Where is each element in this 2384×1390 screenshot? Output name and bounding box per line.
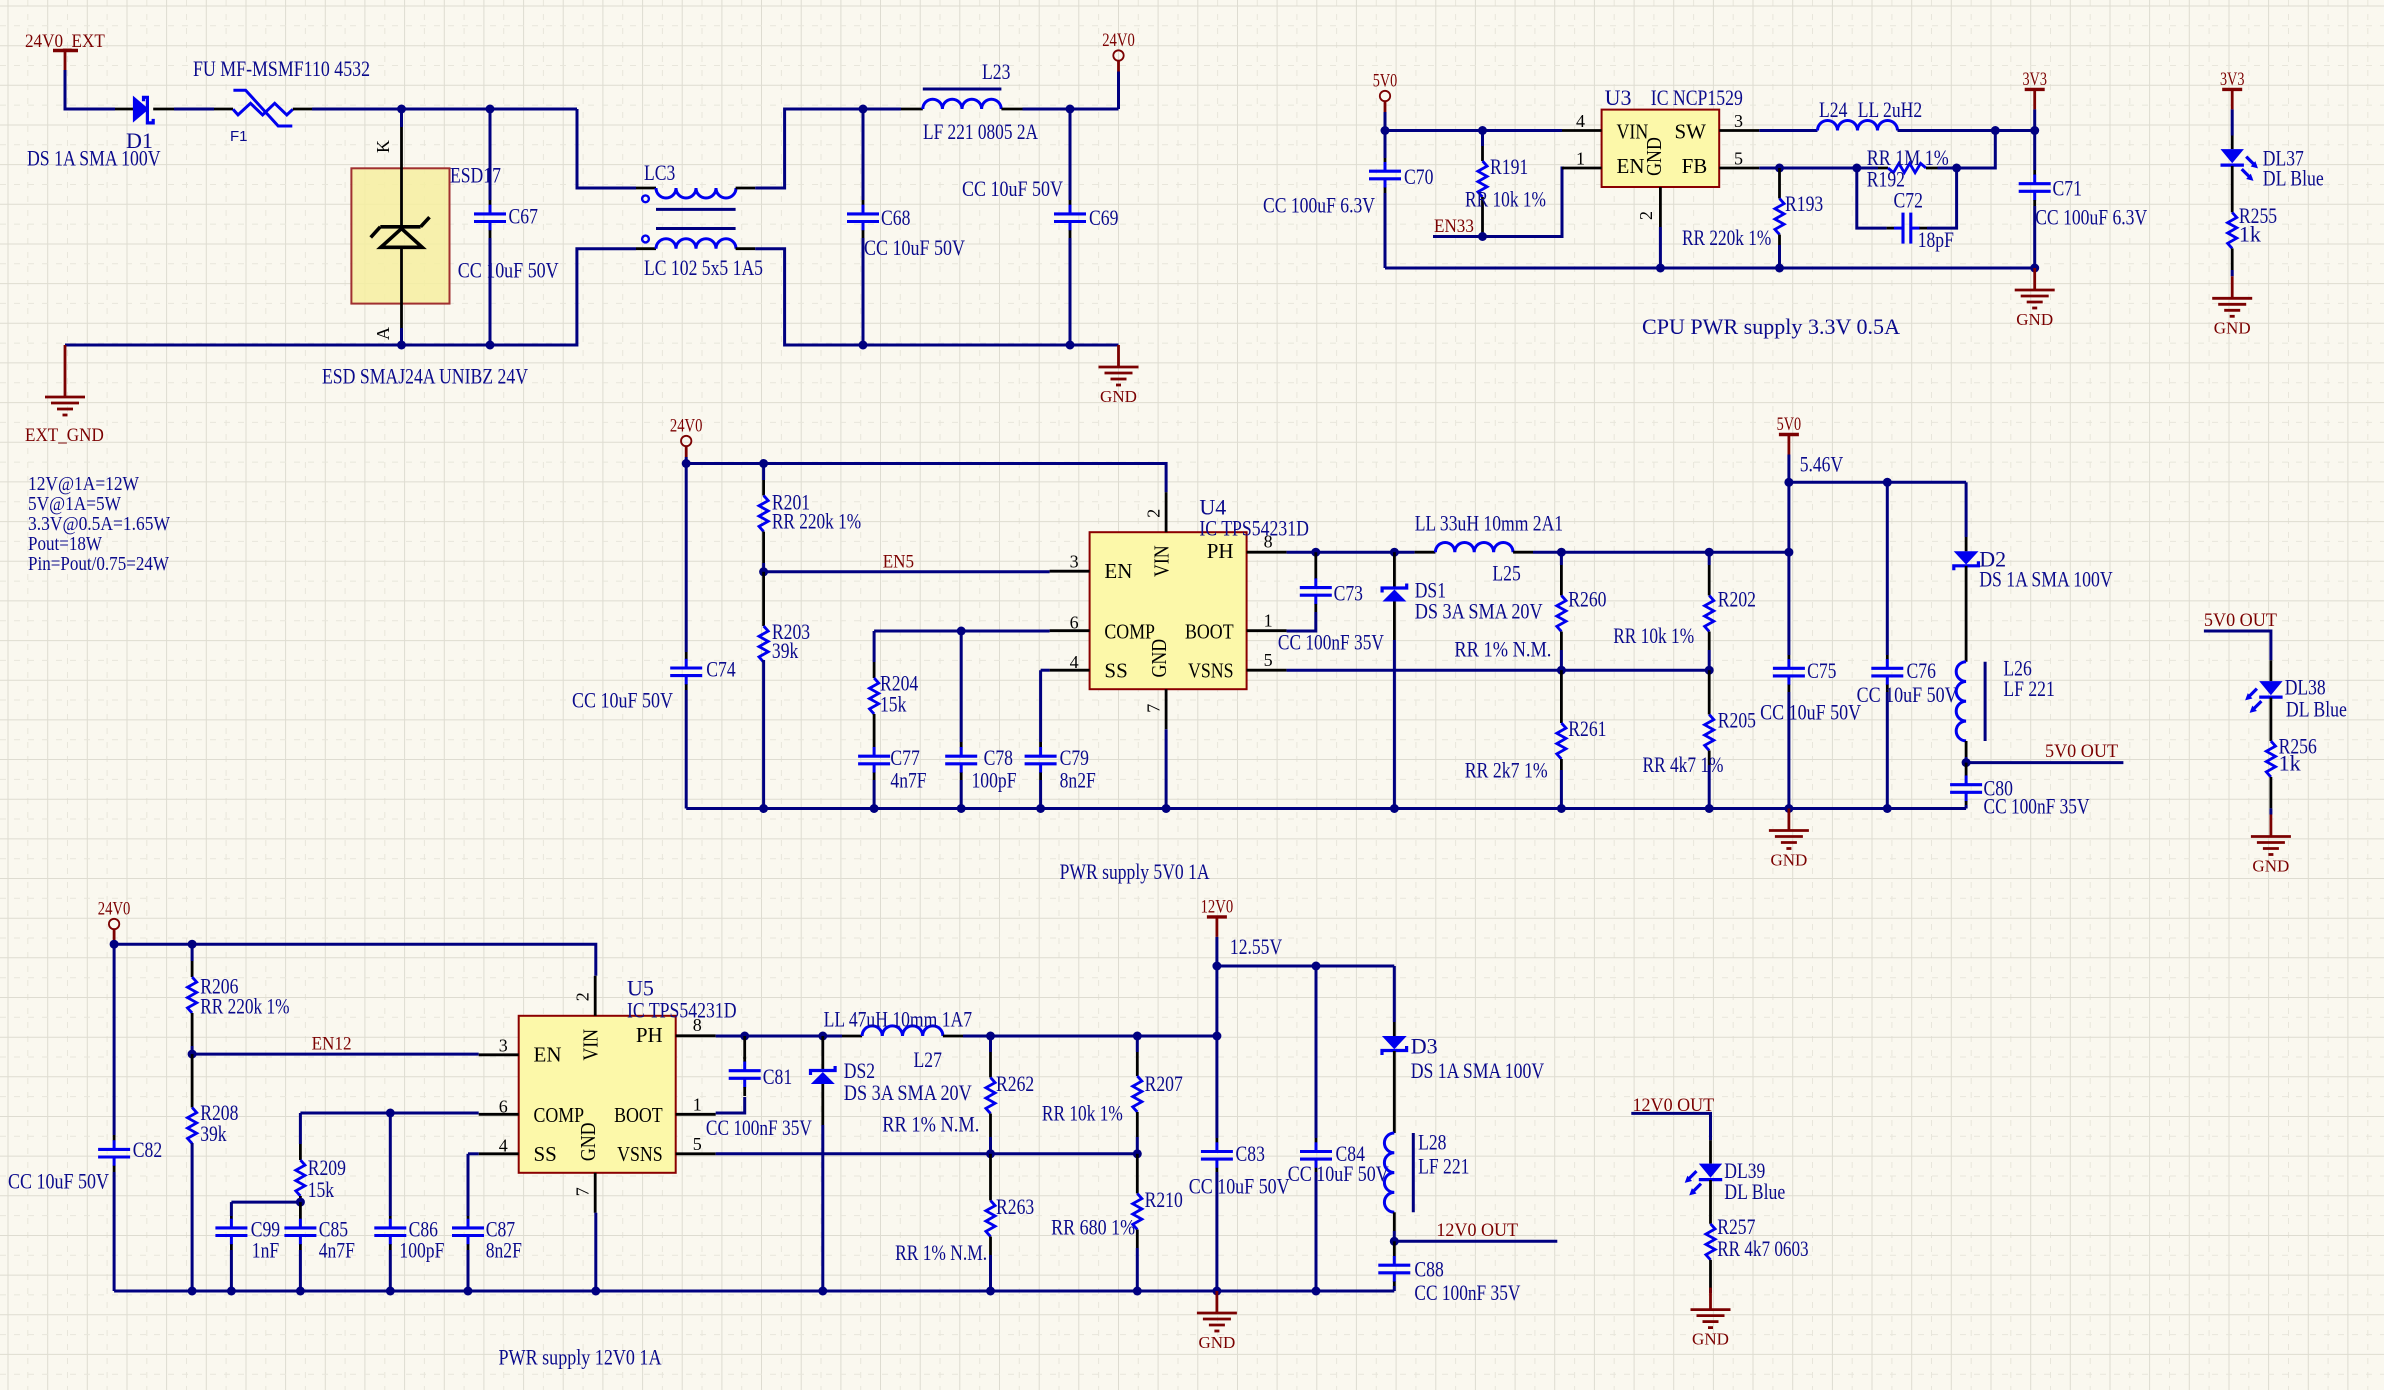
- svg-text:L25: L25: [1492, 561, 1520, 586]
- svg-text:2: 2: [1144, 509, 1164, 518]
- U5 pin 6 COMP: [479, 1113, 519, 1116]
- svg-text:RR 4k7 1%: RR 4k7 1%: [1643, 752, 1724, 777]
- junction DS1 top: [1390, 548, 1399, 557]
- svg-text:Pout=18W: Pout=18W: [28, 533, 102, 555]
- ground GND mid block: [1788, 809, 1791, 831]
- svg-text:DS 1A SMA 100V: DS 1A SMA 100V: [1979, 567, 2113, 592]
- svg-text:CC 10uF 50V: CC 10uF 50V: [8, 1169, 109, 1194]
- svg-text:RR 1% N.M.: RR 1% N.M.: [895, 1240, 987, 1265]
- op IC U4 TPS54231D body: [1090, 532, 1247, 689]
- capacitor C87 8n2F: [467, 1154, 470, 1216]
- resistor R191 RR 10k 1%: [1481, 131, 1484, 147]
- capacitor C86 100pF: [389, 1113, 392, 1216]
- svg-text:L24: L24: [1819, 97, 1847, 122]
- svg-text:BOOT: BOOT: [1185, 620, 1234, 644]
- svg-text:CC 10uF 50V: CC 10uF 50V: [1288, 1161, 1389, 1186]
- wire SS row U5: [468, 1152, 479, 1155]
- svg-text:RR 1% N.M.: RR 1% N.M.: [882, 1112, 979, 1137]
- ground GND DL37: [2231, 276, 2234, 298]
- svg-text:LF 221: LF 221: [1418, 1154, 1469, 1179]
- junction R209/C85: [296, 1198, 305, 1207]
- svg-text:DS 3A SMA 20V: DS 3A SMA 20V: [844, 1080, 972, 1105]
- top rail bottom block: [114, 944, 596, 976]
- LED DL38 DL Blue: [2269, 660, 2272, 681]
- inductor L27 LL 47uH 10mm 1A7: [842, 1035, 862, 1038]
- svg-text:C77: C77: [890, 745, 919, 770]
- capacitor C77 4n7F: [873, 714, 876, 748]
- diode D3 DS 1A SMA 100V: [1393, 966, 1396, 1022]
- wire D1 to F1: [174, 108, 214, 111]
- inductor L24 LL 2uH2: [1759, 129, 1817, 132]
- capacitor C84 CC 10uF 50V: [1315, 966, 1318, 1138]
- junction U4 GND bottom: [1162, 804, 1171, 813]
- svg-text:CC 100uF 6.3V: CC 100uF 6.3V: [2035, 205, 2147, 230]
- svg-text:3V3: 3V3: [2022, 69, 2047, 90]
- capacitor C83 CC 10uF 50V: [1215, 1036, 1218, 1138]
- resistor R204 15k: [873, 631, 876, 662]
- svg-text:C74: C74: [706, 656, 735, 681]
- svg-text:GND: GND: [1642, 137, 1666, 176]
- junction C77 bottom: [870, 804, 879, 813]
- svg-text:5: 5: [1734, 149, 1743, 169]
- top rail mid block: [686, 464, 1166, 493]
- svg-text:IC TPS54231D: IC TPS54231D: [1199, 516, 1309, 541]
- junction C70 top: [1381, 126, 1390, 135]
- svg-text:GND: GND: [1692, 1330, 1729, 1349]
- svg-text:CC 10uF 50V: CC 10uF 50V: [1760, 700, 1861, 725]
- svg-text:SS: SS: [1104, 659, 1127, 683]
- svg-text:4: 4: [1070, 652, 1079, 672]
- junction R202/R205: [1705, 666, 1714, 675]
- resistor R201 RR 220k 1%: [762, 464, 765, 481]
- svg-text:R202: R202: [1718, 587, 1756, 612]
- inductor L26 LF 221: [1956, 662, 1966, 741]
- svg-text:VIN: VIN: [1150, 545, 1174, 577]
- ESD yellow highlight box: [351, 168, 449, 303]
- svg-text:C72: C72: [1894, 188, 1923, 213]
- svg-text:EN12: EN12: [312, 1034, 352, 1055]
- ground GND DL38: [2269, 815, 2272, 837]
- svg-text:VSNS: VSNS: [1188, 659, 1234, 683]
- capacitor C82 CC 10uF 50V: [113, 944, 116, 1135]
- junction C82 top: [110, 940, 119, 949]
- wire F1 to node / top rail: [312, 108, 577, 111]
- svg-text:1: 1: [1576, 149, 1585, 169]
- svg-text:CC 10uF 50V: CC 10uF 50V: [1189, 1174, 1290, 1199]
- svg-text:8n2F: 8n2F: [1060, 768, 1096, 793]
- junction C68 top: [859, 105, 868, 114]
- svg-text:C70: C70: [1404, 164, 1433, 189]
- svg-text:18pF: 18pF: [1918, 227, 1954, 252]
- inductor L28 LF 221: [1384, 1133, 1394, 1212]
- junction R262 top: [986, 1032, 995, 1041]
- svg-text:F1: F1: [230, 128, 248, 145]
- common-mode choke LC3 LC 102 5x5 1A5: [636, 187, 656, 190]
- svg-text:15k: 15k: [880, 692, 906, 717]
- junction EN33/R191: [1478, 232, 1487, 241]
- U3 pin 1 EN: [1562, 167, 1602, 170]
- diode D2 DS 1A SMA 100V: [1965, 482, 1968, 537]
- svg-text:RR 2k7 1%: RR 2k7 1%: [1465, 758, 1548, 783]
- svg-text:7: 7: [1144, 704, 1164, 713]
- capacitor C99 1nF: [230, 1202, 233, 1216]
- ground GND block B: [2033, 268, 2036, 290]
- capacitor C69 CC 10uF 50V: [1069, 109, 1072, 200]
- svg-text:LC3: LC3: [644, 160, 675, 185]
- svg-text:SS: SS: [534, 1142, 557, 1166]
- capacitor C80 CC 100nF 35V: [1965, 763, 1968, 771]
- junction 12V rail left: [1212, 962, 1221, 971]
- svg-text:CPU PWR supply 3.3V 0.5A: CPU PWR supply 3.3V 0.5A: [1642, 314, 1900, 339]
- svg-text:5V0: 5V0: [1777, 414, 1802, 435]
- ground GND block A: [1117, 345, 1120, 367]
- svg-text:C78: C78: [984, 745, 1013, 770]
- svg-text:4: 4: [499, 1135, 508, 1155]
- svg-text:12V@1A=12W: 12V@1A=12W: [28, 473, 139, 495]
- resistor R256 1k: [2266, 741, 2275, 777]
- svg-text:DL Blue: DL Blue: [2286, 697, 2347, 722]
- capacitor C79 8n2F: [1039, 670, 1042, 742]
- svg-text:PWR supply 5V0 1A: PWR supply 5V0 1A: [1060, 859, 1210, 884]
- svg-text:1nF: 1nF: [252, 1238, 279, 1263]
- ferrite L23 LF 221 0805 2A: [901, 108, 923, 111]
- 5V output rail: [1789, 481, 1966, 484]
- junction R193 top: [1775, 164, 1784, 173]
- U4 pin 2 VIN: [1165, 492, 1168, 532]
- resistor R207 RR 10k 1%: [1136, 1036, 1139, 1052]
- svg-text:GND: GND: [1100, 387, 1137, 406]
- svg-text:C75: C75: [1807, 658, 1836, 683]
- svg-text:RR 1% N.M.: RR 1% N.M.: [1454, 637, 1551, 662]
- ground GND DL39: [1709, 1288, 1712, 1310]
- junction C99 bottom: [227, 1287, 236, 1296]
- wire EN5 row: [764, 570, 1050, 573]
- capacitor C73 CC 100nF 35V: [1314, 552, 1317, 574]
- wire FB row: [1759, 167, 1857, 170]
- svg-text:12.55V: 12.55V: [1230, 934, 1282, 959]
- svg-text:RR 220k 1%: RR 220k 1%: [772, 509, 861, 534]
- junction C74 top: [682, 459, 691, 468]
- wire 24V0_EXT to D1: [65, 70, 115, 109]
- svg-text:R210: R210: [1145, 1187, 1183, 1212]
- wire SS row U4: [1041, 669, 1050, 672]
- op IC U3 NCP1529 body: [1602, 110, 1720, 187]
- capacitor C70 CC 100uF 6.3V: [1384, 131, 1387, 159]
- svg-text:Pin=Pout/0.75=24W: Pin=Pout/0.75=24W: [28, 553, 169, 575]
- svg-text:DS 1A SMA 100V: DS 1A SMA 100V: [1411, 1058, 1545, 1083]
- resistor R209 15k: [299, 1113, 302, 1144]
- svg-text:GND: GND: [2214, 318, 2251, 337]
- junction C83/GND bottom: [1212, 1287, 1221, 1296]
- U5 pin 2 VIN: [594, 976, 597, 1016]
- svg-text:C68: C68: [881, 205, 910, 230]
- resistor R263 RR 1% N.M.: [989, 1154, 992, 1201]
- svg-text:R260: R260: [1568, 587, 1606, 612]
- U3 pin 2 GND: [1659, 187, 1662, 227]
- TVS ESD17 SMAJ24A: [400, 109, 403, 127]
- svg-text:39k: 39k: [200, 1121, 226, 1146]
- resistor R203 39k: [762, 572, 765, 626]
- capacitor C88 CC 100nF 35V: [1393, 1241, 1396, 1251]
- junction C69 top: [1066, 105, 1075, 114]
- svg-text:R191: R191: [1490, 154, 1528, 179]
- U5 pin 5 VSNS: [676, 1152, 716, 1155]
- svg-text:VIN: VIN: [579, 1029, 603, 1061]
- junction R207/R210: [1133, 1149, 1142, 1158]
- U5 pin 4 SS: [479, 1152, 519, 1155]
- svg-text:L28: L28: [1418, 1130, 1446, 1155]
- svg-text:R207: R207: [1145, 1071, 1183, 1096]
- svg-text:4: 4: [1576, 111, 1585, 131]
- svg-text:RR 10k 1%: RR 10k 1%: [1465, 187, 1546, 212]
- svg-text:24V0: 24V0: [1102, 30, 1135, 51]
- wire 5V0_OUT stub: [1966, 761, 2123, 764]
- svg-text:IC NCP1529: IC NCP1529: [1651, 85, 1743, 110]
- svg-text:R205: R205: [1718, 708, 1756, 733]
- svg-text:3: 3: [1070, 552, 1079, 572]
- junction C86 bottom: [386, 1287, 395, 1296]
- svg-text:ESD17: ESD17: [450, 163, 501, 188]
- svg-text:GND: GND: [2016, 310, 2053, 329]
- svg-text:8n2F: 8n2F: [486, 1238, 522, 1263]
- svg-text:PH: PH: [1207, 539, 1234, 563]
- top rail 5V block: [1385, 129, 1562, 132]
- svg-text:C71: C71: [2053, 176, 2082, 201]
- svg-text:R193: R193: [1785, 191, 1823, 216]
- U4 pin 8 PH: [1247, 551, 1287, 554]
- wire EN33 to U3 EN: [1433, 168, 1564, 237]
- svg-text:5: 5: [693, 1134, 702, 1154]
- wire 5V0_OUT to DL38: [2204, 631, 2271, 660]
- svg-text:RR 220k 1%: RR 220k 1%: [1682, 225, 1771, 250]
- junction C67 top: [486, 105, 495, 114]
- U4 pin 5 VSNS: [1247, 669, 1287, 672]
- junction ESD bottom: [397, 341, 406, 350]
- junction C81 top: [740, 1032, 749, 1041]
- U4 pin 4 SS: [1050, 669, 1090, 672]
- U3 pin 4 VIN: [1562, 129, 1602, 132]
- svg-text:PWR supply 12V0 1A: PWR supply 12V0 1A: [499, 1345, 662, 1370]
- junction R260/R261: [1557, 666, 1566, 675]
- svg-text:1: 1: [693, 1094, 702, 1114]
- junction C71 top: [2030, 126, 2039, 135]
- svg-text:DS 3A SMA 20V: DS 3A SMA 20V: [1415, 599, 1543, 624]
- LED DL37 DL Blue: [2231, 136, 2234, 150]
- resistor R206 RR 220k 1%: [191, 944, 194, 961]
- svg-text:LF 221: LF 221: [2003, 676, 2054, 701]
- bottom rail 5V block: [1385, 267, 2035, 270]
- svg-text:FB: FB: [1682, 154, 1708, 178]
- junction R260 top: [1557, 548, 1566, 557]
- svg-text:GND: GND: [1198, 1333, 1235, 1352]
- wire 5V port column: [1787, 482, 1790, 552]
- svg-text:EXT_GND: EXT_GND: [25, 425, 104, 446]
- svg-text:CC 10uF 50V: CC 10uF 50V: [458, 258, 559, 283]
- junction 5V rail / PH: [1784, 548, 1793, 557]
- svg-text:5V0 OUT: 5V0 OUT: [2045, 741, 2118, 762]
- svg-text:6: 6: [1070, 613, 1079, 633]
- junction C84 bottom: [1312, 1287, 1321, 1296]
- junction 5V0_OUT: [1962, 758, 1971, 767]
- svg-text:LL 33uH 10mm 2A1: LL 33uH 10mm 2A1: [1415, 511, 1563, 536]
- junction R207 top: [1133, 1032, 1142, 1041]
- U3 pin 5 FB: [1719, 167, 1759, 170]
- svg-text:1: 1: [1264, 611, 1273, 631]
- U3 pin 3 SW: [1719, 129, 1759, 132]
- resistor R210 RR 680 1%: [1136, 1154, 1139, 1194]
- resistor R193 RR 220k 1%: [1778, 168, 1781, 199]
- resistor R208 39k: [191, 1054, 194, 1107]
- svg-text:FU MF-MSMF110 4532: FU MF-MSMF110 4532: [193, 56, 370, 81]
- svg-text:BOOT: BOOT: [614, 1103, 663, 1127]
- svg-text:U3: U3: [1605, 85, 1632, 110]
- svg-text:24V0: 24V0: [98, 899, 131, 920]
- svg-text:4n7F: 4n7F: [890, 768, 926, 793]
- bottom return rail left: [65, 249, 636, 345]
- capacitor C76 CC 10uF 50V: [1886, 482, 1889, 655]
- diode D1 DS 1A SMA 100V: [115, 108, 133, 111]
- junction C76 top: [1883, 478, 1892, 487]
- svg-text:D3: D3: [1411, 1034, 1438, 1059]
- svg-text:LC 102 5x5 1A5: LC 102 5x5 1A5: [644, 255, 763, 280]
- junction R261 bottom: [1557, 804, 1566, 813]
- svg-text:EN: EN: [1104, 559, 1132, 583]
- junction R263 bottom: [986, 1287, 995, 1296]
- U4 pin 1 BOOT: [1247, 629, 1287, 632]
- junction DS2 top: [818, 1032, 827, 1041]
- svg-text:1k: 1k: [2239, 222, 2261, 247]
- svg-text:5.46V: 5.46V: [1800, 452, 1844, 477]
- resistor R255 1k: [2228, 212, 2237, 248]
- svg-text:1k: 1k: [2279, 751, 2301, 776]
- U4 pin 6 COMP: [1050, 629, 1090, 632]
- svg-text:RR 220k 1%: RR 220k 1%: [200, 994, 289, 1019]
- svg-text:PH: PH: [636, 1023, 663, 1047]
- junction DS2 bottom: [818, 1287, 827, 1296]
- svg-text:CC 100nF 35V: CC 100nF 35V: [1984, 794, 2090, 819]
- svg-text:C79: C79: [1060, 745, 1089, 770]
- junction C85 bottom: [296, 1287, 305, 1296]
- svg-text:RR 4k7 0603: RR 4k7 0603: [1717, 1236, 1808, 1261]
- svg-text:3.3V@0.5A=1.65W: 3.3V@0.5A=1.65W: [28, 513, 170, 535]
- svg-text:CC 100nF 35V: CC 100nF 35V: [1414, 1280, 1520, 1305]
- U5 pin 3 EN: [479, 1053, 519, 1056]
- svg-text:C83: C83: [1236, 1141, 1265, 1166]
- junction C78 bottom: [957, 804, 966, 813]
- svg-text:24V0: 24V0: [670, 416, 703, 437]
- svg-text:R261: R261: [1568, 716, 1606, 741]
- junction C75/GND bottom: [1784, 804, 1793, 813]
- wire LC3 upper out to top rail: [755, 109, 901, 188]
- wire VSNS row U5: [716, 1152, 1138, 1155]
- svg-text:GND: GND: [576, 1122, 600, 1161]
- svg-text:15k: 15k: [308, 1177, 334, 1202]
- svg-text:GND: GND: [1147, 639, 1171, 678]
- junction R262/R263: [986, 1149, 995, 1158]
- wire 12V port column: [1215, 966, 1218, 1036]
- junction U3 GND: [1656, 264, 1665, 273]
- svg-text:100pF: 100pF: [972, 768, 1017, 793]
- wire C99 branch row: [231, 1201, 300, 1204]
- svg-text:C82: C82: [133, 1137, 162, 1162]
- svg-text:3: 3: [499, 1035, 508, 1055]
- resistor R261 RR 2k7 1%: [1560, 670, 1563, 723]
- bottom rail bottom block: [114, 1290, 1394, 1293]
- U5 pin 8 PH: [676, 1034, 716, 1037]
- svg-text:A: A: [373, 327, 393, 340]
- svg-text:CC 100nF 35V: CC 100nF 35V: [706, 1115, 812, 1140]
- junction 5V rail left: [1784, 478, 1793, 487]
- svg-text:RR 10k 1%: RR 10k 1%: [1042, 1101, 1123, 1126]
- junction R205 bottom: [1705, 804, 1714, 813]
- svg-text:C81: C81: [763, 1064, 792, 1089]
- svg-text:GND: GND: [2252, 857, 2289, 876]
- capacitor C72 18pF parallel branch: [1857, 168, 1887, 228]
- svg-text:CC 100uF 6.3V: CC 100uF 6.3V: [1263, 193, 1375, 218]
- svg-text:RR 680 1%: RR 680 1%: [1051, 1215, 1135, 1240]
- svg-text:CC 10uF 50V: CC 10uF 50V: [572, 688, 673, 713]
- U5 pin 1 BOOT: [676, 1113, 716, 1116]
- capacitor C75 CC 10uF 50V: [1787, 552, 1790, 655]
- resistor R202 RR 10k 1%: [1708, 552, 1711, 565]
- wire VSNS row U4: [1287, 669, 1710, 672]
- junction C71 bottom: [2030, 264, 2039, 273]
- svg-text:C88: C88: [1414, 1257, 1443, 1282]
- wire COMP row U4: [874, 630, 1050, 633]
- svg-text:2: 2: [573, 992, 593, 1001]
- svg-text:C69: C69: [1089, 205, 1118, 230]
- svg-text:EN5: EN5: [883, 552, 914, 573]
- svg-text:ESD SMAJ24A UNIBZ 24V: ESD SMAJ24A UNIBZ 24V: [322, 364, 528, 389]
- wire top rail into LC3: [577, 109, 636, 188]
- ground GND bottom block: [1216, 1291, 1219, 1313]
- U4 pin 7 GND: [1165, 689, 1168, 729]
- svg-text:C76: C76: [1907, 658, 1936, 683]
- junction R210 bottom: [1133, 1287, 1142, 1296]
- svg-text:4n7F: 4n7F: [319, 1238, 355, 1263]
- wire U4 GND pin to rail: [1165, 729, 1168, 808]
- svg-text:5V0: 5V0: [1373, 71, 1398, 92]
- svg-text:7: 7: [573, 1187, 593, 1196]
- capacitor C68 CC 10uF 50V: [862, 109, 865, 200]
- ground EXT_GND: [64, 345, 67, 397]
- junction R202 top: [1705, 548, 1714, 557]
- junction R193 bottom: [1775, 264, 1784, 273]
- svg-text:3: 3: [1734, 111, 1743, 131]
- resistor R192 RR 1M 1%: [1852, 164, 1861, 173]
- capacitor C71 CC 100uF 6.3V: [2033, 131, 2036, 171]
- junction R206 top: [188, 940, 197, 949]
- capacitor C67 CC 10uF 50V: [489, 109, 492, 200]
- svg-text:EN: EN: [534, 1043, 562, 1067]
- svg-text:IC TPS54231D: IC TPS54231D: [627, 998, 737, 1023]
- svg-text:CC 10uF 50V: CC 10uF 50V: [962, 176, 1063, 201]
- svg-text:LF 221 0805 2A: LF 221 0805 2A: [923, 119, 1038, 144]
- resistor R260 RR 1% N.M.: [1560, 552, 1563, 565]
- junction C69 bottom: [1066, 341, 1075, 350]
- svg-text:R262: R262: [996, 1071, 1034, 1096]
- svg-text:LL 47uH 10mm 1A7: LL 47uH 10mm 1A7: [824, 1007, 972, 1032]
- inductor L25 LL 33uH 10mm 2A1: [1415, 551, 1436, 554]
- junction C84 top: [1312, 962, 1321, 971]
- svg-text:12V0 OUT: 12V0 OUT: [1436, 1220, 1518, 1241]
- svg-text:EN: EN: [1617, 154, 1645, 178]
- junction C78 top: [957, 627, 966, 636]
- svg-text:5V0 OUT: 5V0 OUT: [2204, 610, 2277, 631]
- svg-text:L27: L27: [914, 1047, 942, 1072]
- bottom rail mid block: [686, 807, 1966, 810]
- junction C67 bottom: [486, 341, 495, 350]
